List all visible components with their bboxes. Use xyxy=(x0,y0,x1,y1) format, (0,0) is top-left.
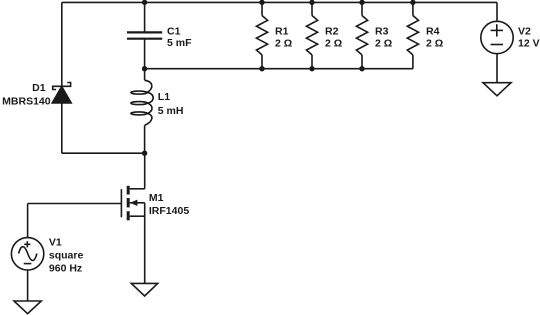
svg-text:IRF1405: IRF1405 xyxy=(149,205,189,217)
svg-text:C1: C1 xyxy=(167,25,181,37)
resistor R1 xyxy=(256,2,267,68)
ground V1 xyxy=(14,301,41,314)
svg-text:R1: R1 xyxy=(275,26,289,38)
wire diode column from top rail to D1 cathode xyxy=(61,2,63,86)
svg-text:L1: L1 xyxy=(158,91,170,103)
svg-text:square: square xyxy=(49,250,84,262)
svg-text:R4: R4 xyxy=(426,26,440,38)
resistor R2 xyxy=(306,2,317,68)
svg-text:V2: V2 xyxy=(518,25,531,37)
resistor R3 xyxy=(356,2,367,68)
node junction R1 top xyxy=(259,0,264,5)
svg-text:R2: R2 xyxy=(325,26,339,38)
voltage source V2 xyxy=(481,2,513,82)
capacitor C1 xyxy=(127,32,162,38)
wire bottom rail xyxy=(145,68,413,70)
wire D1 anode down xyxy=(61,103,63,153)
node junction R4 top xyxy=(410,0,415,5)
resistor R4 xyxy=(407,2,418,68)
wire M1 source down xyxy=(144,203,146,284)
inductor L1 xyxy=(131,69,153,154)
node junction C1 bottom / rail xyxy=(142,66,147,71)
svg-text:M1: M1 xyxy=(149,192,164,204)
svg-text:5 mF: 5 mF xyxy=(167,37,192,49)
wire top rail xyxy=(62,1,497,3)
wire C1 top stub xyxy=(144,2,146,32)
svg-text:2 Ω: 2 Ω xyxy=(325,38,342,50)
wire C1 bottom stub xyxy=(144,39,146,69)
svg-text:MBRS140: MBRS140 xyxy=(2,95,51,107)
svg-text:V1: V1 xyxy=(49,237,62,249)
ground M1 xyxy=(131,283,157,296)
svg-text:2 Ω: 2 Ω xyxy=(375,38,392,50)
voltage source V1 xyxy=(11,204,43,302)
wire M1 drain up to node xyxy=(144,153,146,189)
svg-text:12 V: 12 V xyxy=(518,38,540,50)
svg-text:960 Hz: 960 Hz xyxy=(49,262,82,274)
svg-text:5 mH: 5 mH xyxy=(158,105,184,117)
diode D1 (Schottky) xyxy=(52,83,71,104)
node junction R2 bottom xyxy=(309,66,314,71)
svg-text:2 Ω: 2 Ω xyxy=(426,38,443,50)
wire V1 to M1 gate xyxy=(28,203,122,205)
node junction L1 bottom / D1 / M1 drain xyxy=(142,151,147,156)
node junction R1 bottom xyxy=(259,66,264,71)
wire bottom-left horizontal D1 to node xyxy=(62,152,145,154)
node junction R2 top xyxy=(309,0,314,5)
ground V2 xyxy=(483,83,511,96)
node junction C1 top xyxy=(142,0,147,5)
svg-text:R3: R3 xyxy=(375,26,389,38)
node junction R3 top xyxy=(359,0,364,5)
svg-text:2 Ω: 2 Ω xyxy=(275,38,292,50)
svg-text:D1: D1 xyxy=(32,82,46,94)
transistor M1 (NMOS) xyxy=(121,186,144,221)
node junction R3 bottom xyxy=(359,66,364,71)
